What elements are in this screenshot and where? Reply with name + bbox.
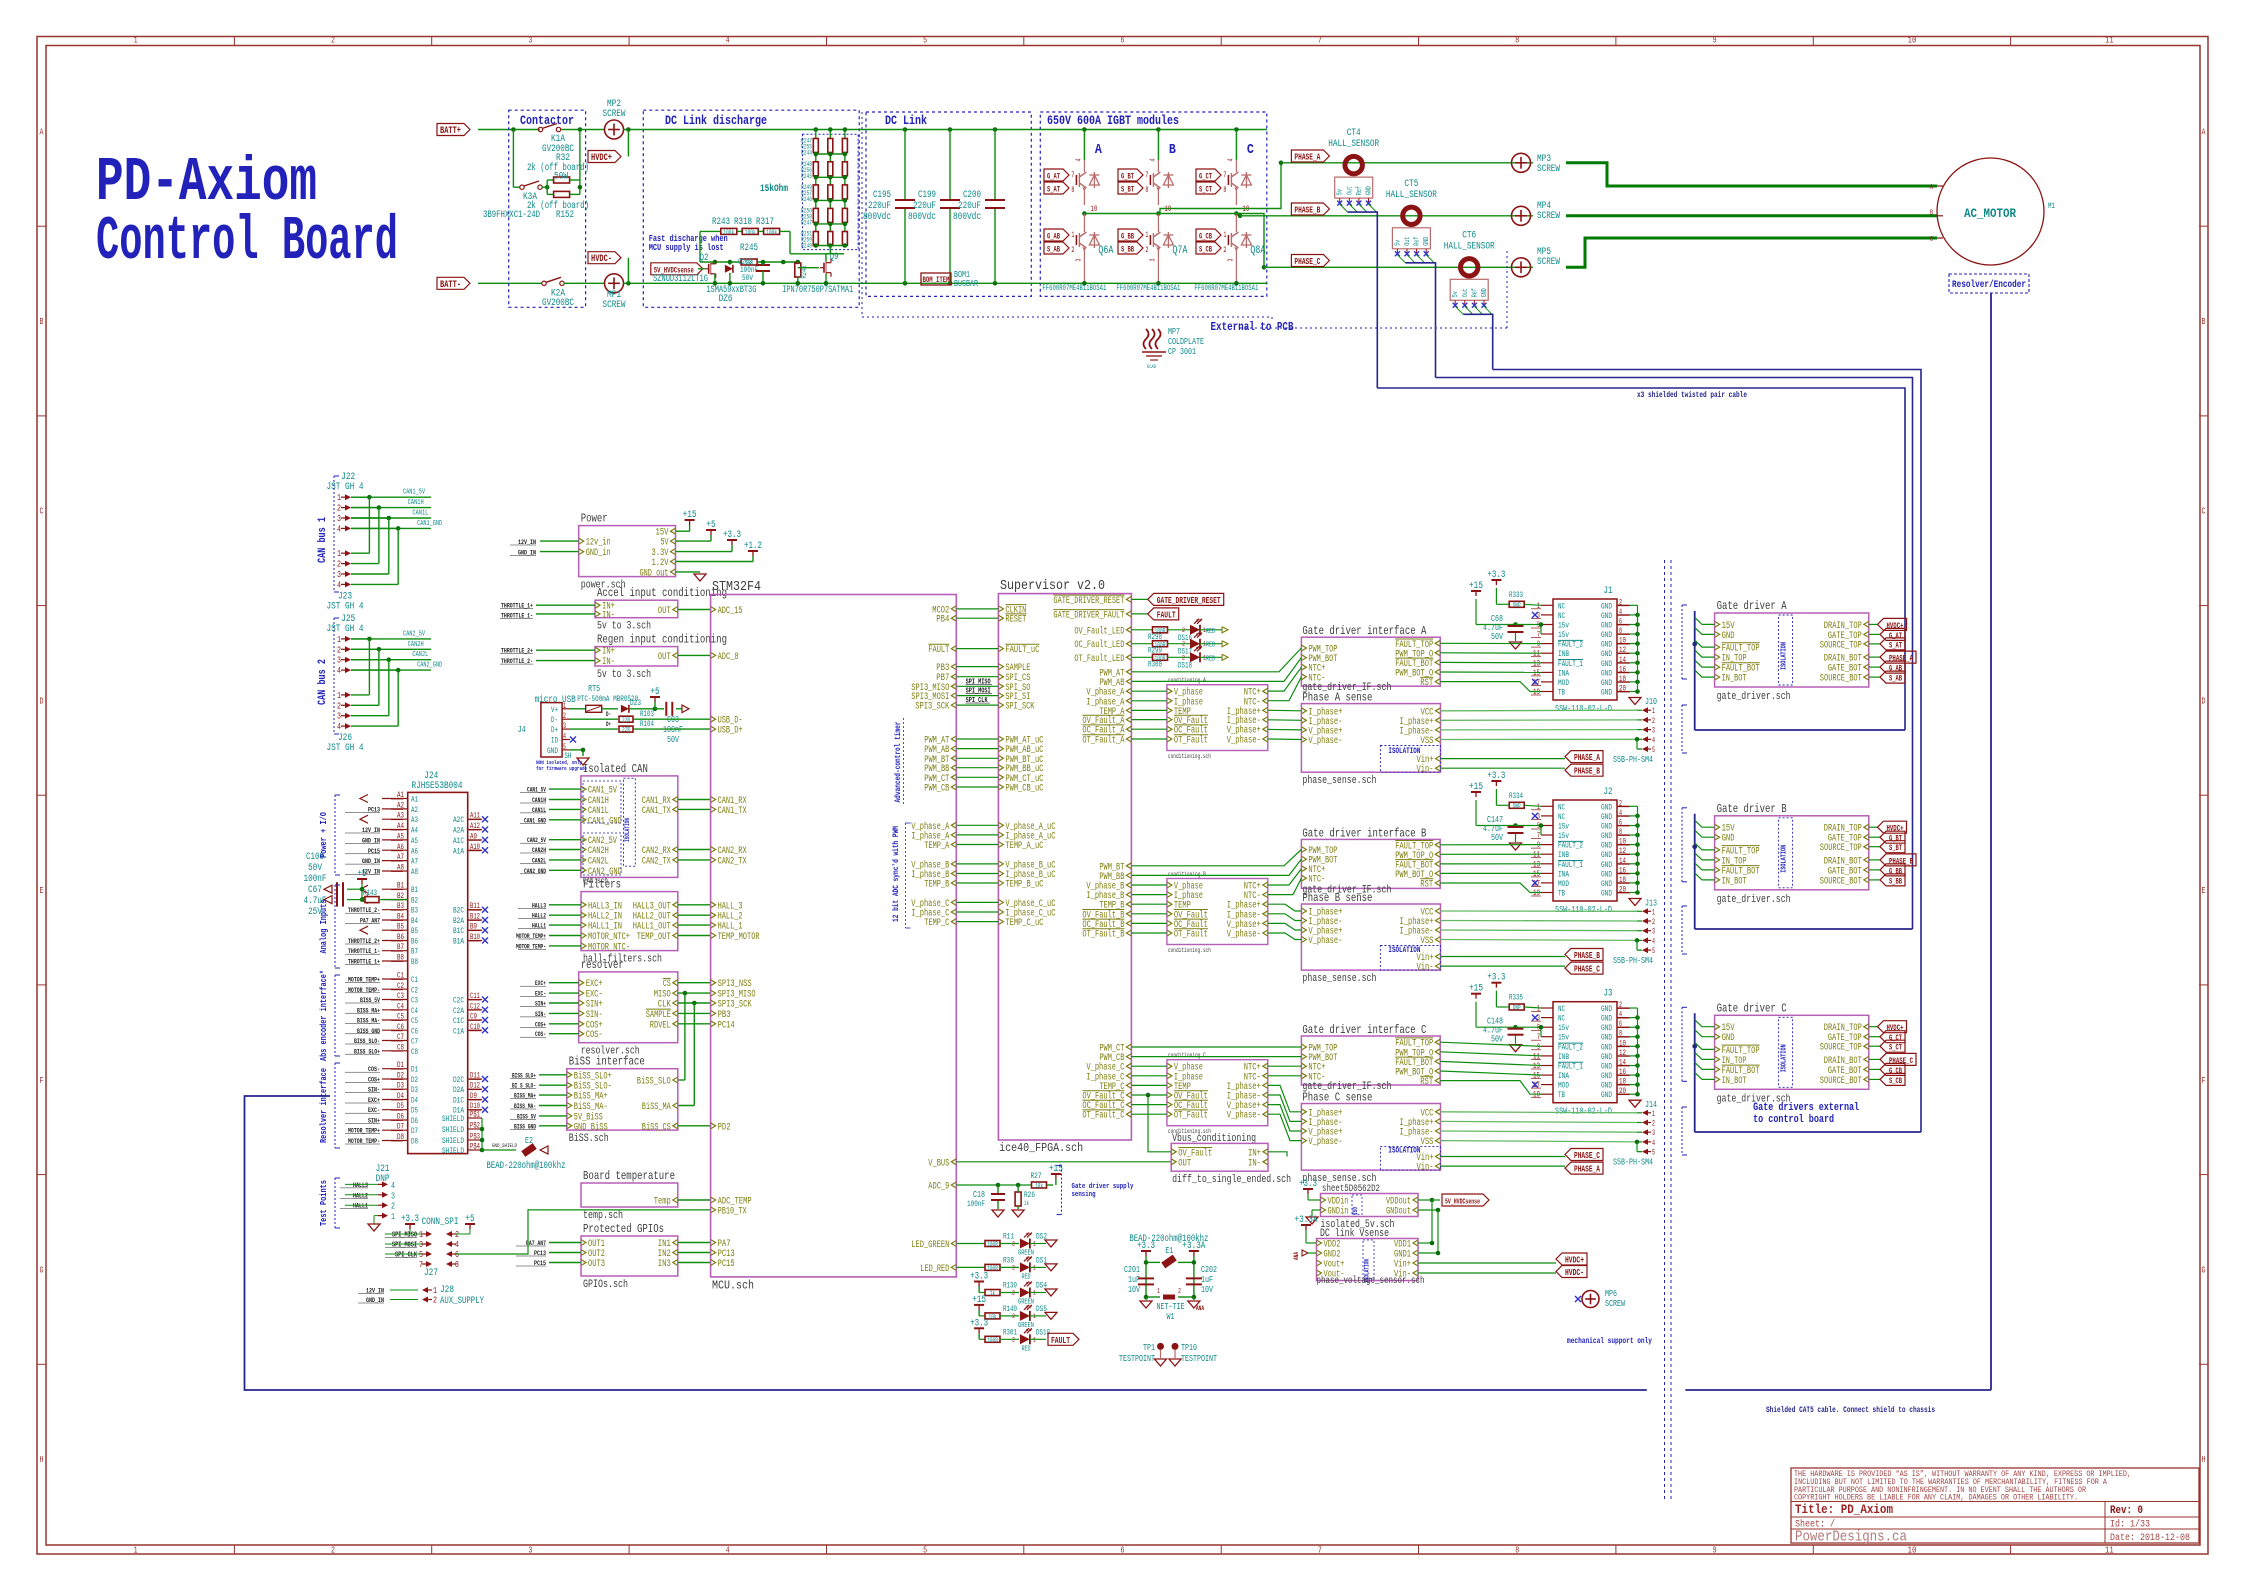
svg-text:GNDin: GNDin [1328,1206,1349,1218]
svg-text:G_BB: G_BB [1889,867,1902,876]
svg-text:CAN bus 1: CAN bus 1 [317,517,329,563]
svg-text:CP 3001: CP 3001 [1168,347,1196,357]
svg-text:RED: RED [1022,1345,1031,1353]
svg-text:FAULT_uC: FAULT_uC [1005,645,1039,656]
pin I_phase_B_uC of Supervisor [998,871,1003,877]
svg-text:GND: GND [1601,641,1612,650]
svg-text:GND: GND [1601,631,1612,640]
power flag +15 [689,520,691,525]
pin CAN1_TX of MCU [711,806,716,812]
svg-text:NC: NC [1558,803,1565,812]
svg-text:IN_BOT: IN_BOT [1722,674,1747,685]
svg-text:Q6A: Q6A [1098,245,1113,257]
svg-text:P$4: P$4 [470,1143,480,1152]
global label PHASE_C [1869,1058,1880,1060]
svg-text:SPI_SCK: SPI_SCK [1005,702,1034,713]
svg-text:9: 9 [1713,36,1717,46]
svg-text:FF600R07ME4B11BOSA1: FF600R07ME4B11BOSA1 [1194,284,1258,293]
svg-text:8: 8 [1515,36,1519,46]
pin PWM_AB_uC of Supervisor [998,746,1003,752]
svg-text:D-: D- [606,711,611,718]
svg-text:A2A: A2A [453,827,464,836]
svg-text:2: 2 [1071,246,1074,255]
pin 13 of J2 [1541,863,1553,865]
gate label S_CT [1196,182,1221,194]
svg-text:JST GH 4: JST GH 4 [327,743,364,754]
wires VDD1/GND1 [1418,1242,1432,1244]
svg-text:3: 3 [1652,928,1655,937]
wires gate driver IF C to J3 [1440,1042,1541,1046]
svg-text:GND: GND [1601,813,1612,822]
svg-text:BiSS_MA-: BiSS_MA- [574,1101,608,1113]
svg-text:9: 9 [1537,640,1540,649]
svg-text:TB: TB [1558,890,1565,899]
svg-text:GND_BiSS: GND_BiSS [574,1121,608,1133]
wire BiSS_CS to PD2 [678,1125,711,1127]
global label PHASE_A [1441,758,1566,760]
svg-text:GND: GND [1601,822,1612,831]
svg-text:GND: GND [1722,1033,1735,1044]
svg-text:GATE_DRIVER_RESET: GATE_DRIVER_RESET [1157,596,1221,606]
pin A4 of J24 [382,829,408,831]
svg-text:S_CB: S_CB [1199,246,1212,255]
svg-text:19: 19 [1533,688,1540,697]
pin B5 of J24 [382,929,408,931]
svg-text:GND: GND [1601,689,1612,698]
pin A5 of J24 [382,839,408,841]
pin D5 of J24 [382,1109,408,1111]
pin C7 of J24 [382,1040,408,1042]
pin OT_Fault_B of Supervisor [1126,930,1131,936]
wire motor phase A [1566,163,1937,186]
svg-text:R318: R318 [734,217,752,228]
svg-text:GND: GND [1601,880,1612,889]
pin 2 of J28 [422,1297,428,1303]
svg-text:GV200BC: GV200BC [542,298,574,309]
pin PB10_TX of MCU [711,1207,716,1213]
svg-text:Analog Inputs: Analog Inputs [319,900,329,954]
svg-text:10k: 10k [1035,1183,1043,1190]
wire +5 to J27 pin2 [469,1229,471,1234]
shield cable bottom A [1695,729,1905,731]
pin A3 of J24 [382,818,408,820]
svg-text:RST: RST [1420,1077,1433,1088]
svg-text:2: 2 [1652,918,1655,927]
svg-text:SCREW: SCREW [1537,257,1560,268]
global label HVDC+ [1869,623,1878,625]
pin I_phase_B of MCU [951,871,956,877]
shield cable CT5 [1405,263,1435,378]
svg-text:4: 4 [1227,159,1235,162]
svg-text:15kOhm: 15kOhm [760,183,788,195]
pin D6 of J24 [382,1119,408,1121]
svg-text:4: 4 [337,524,341,534]
pin 9 of J1 [1541,643,1553,645]
power flag +15 near J2 [1475,792,1477,797]
svg-text:RED: RED [1206,655,1215,663]
pin GATE_DRIVER_RESET of Supervisor [1126,596,1131,602]
svg-text:CAN bus 2: CAN bus 2 [317,659,329,705]
zener diode DZ6 [725,265,733,273]
svg-text:4: 4 [1075,159,1083,162]
svg-text:SAMPLE: SAMPLE [646,1010,671,1021]
pin TEMP_B of Supervisor [1126,901,1131,907]
shield cable bottom C [1695,1131,1921,1133]
svg-text:R300: R300 [1148,660,1162,669]
svg-text:R26: R26 [1024,1191,1035,1200]
sheet conditioning A [1167,685,1268,751]
transistor Q2 [705,268,709,270]
svg-text:50V: 50V [742,274,753,283]
svg-text:A2: A2 [411,806,418,815]
svg-text:conditioning B: conditioning B [1168,871,1206,878]
wire resolver out [678,992,711,994]
pin 5 of J2 [1541,825,1553,827]
wire GATE_DRIVER_FAULT [1131,613,1147,615]
pin V_phase_B_uC of Supervisor [998,861,1003,867]
svg-text:2: 2 [1012,1264,1015,1271]
svg-text:Out: Out [1346,186,1354,195]
wire GND bus of J2 [1637,806,1639,892]
svg-text:MP6: MP6 [1605,1289,1617,1299]
wires IN+/IN- to phase sense [1268,1152,1287,1157]
svg-text:GND: GND [1601,650,1612,659]
svg-text:5: 5 [923,1546,927,1556]
pin PB4 of MCU [951,615,956,621]
svg-text:VSS: VSS [1421,936,1434,947]
svg-text:OUT: OUT [658,652,671,663]
pin ADC_TEMP of MCU [711,1197,716,1203]
svg-text:Board temperature: Board temperature [583,1169,675,1183]
pin C4 of J24 [382,1009,408,1011]
pin I_phase_B of Supervisor [1126,892,1131,898]
svg-text:NC: NC [1558,813,1565,822]
svg-text:CAN1_TX: CAN1_TX [642,806,671,817]
ground [1629,698,1641,705]
power flag +3.3 near J1 [1495,580,1497,585]
global label PHASE_C [1441,1156,1566,1158]
svg-text:BATT-: BATT- [440,280,461,291]
pin PWM_AT of Supervisor [1126,669,1131,675]
svg-text:C200: C200 [963,190,981,201]
pin D1 of J24 [382,1068,408,1070]
power flag +3.3A [1305,1225,1307,1230]
pin PB3 of MCU [951,664,956,670]
pin LED_GREEN of MCU [951,1241,956,1247]
capacitor C147 [1475,800,1477,826]
pin 3 of J21 [382,1192,388,1198]
pin PB3 of MCU [711,1010,716,1016]
svg-text:C: C [40,507,44,517]
svg-text:B2: B2 [411,896,418,905]
svg-text:6: 6 [455,1250,459,1260]
svg-text:C2: C2 [411,986,418,995]
svg-text:SPI_MOSI: SPI_MOSI [966,688,991,696]
svg-text:SSW-110-02-L-D: SSW-110-02-L-D [1555,905,1612,915]
svg-text:19: 19 [1533,1091,1540,1100]
svg-text:10: 10 [1090,205,1097,214]
IGBT half-bridge C (Q8A) [1234,127,1239,132]
pin I_phase_C_uC of Supervisor [998,909,1003,915]
svg-text:A2C: A2C [453,816,464,825]
svg-text:1: 1 [1071,231,1074,240]
svg-text:A: A [2202,127,2206,137]
global label 5V_HVDCsense [1432,1199,1440,1201]
svg-text:A1: A1 [411,796,418,805]
svg-text:B3: B3 [411,907,418,916]
pin SPI_SI of Supervisor [998,693,1003,699]
svg-text:ISOLATION: ISOLATION [1781,642,1789,670]
svg-text:GND: GND [1481,288,1489,297]
wire CAN2_TX [678,859,711,861]
svg-text:MOTOR_NTC-: MOTOR_NTC- [588,942,630,953]
svg-text:7: 7 [1145,171,1148,180]
capacitor C201 [1138,1277,1154,1279]
svg-text:Gate driver A: Gate driver A [1717,599,1788,613]
svg-text:F: F [2202,1076,2206,1086]
power flag +15 near J3 [1475,994,1477,999]
svg-text:100R: 100R [987,1265,998,1272]
svg-text:10: 10 [1907,36,1916,46]
svg-text:B4: B4 [411,917,418,926]
svg-text:PHASE_A: PHASE_A [1574,753,1600,763]
relay switch K2A [542,281,546,285]
svg-text:VSS: VSS [1421,736,1434,747]
global label 5V_HVDCsense [651,263,703,275]
svg-text:D: D [40,696,44,706]
svg-text:GND: GND [1601,1062,1612,1071]
shield cable resolver [1990,293,1992,1390]
svg-text:temp.sch: temp.sch [583,1210,623,1222]
svg-text:+3.3: +3.3 [970,1318,988,1329]
svg-text:C199: C199 [918,190,936,201]
wire GPIO [678,1262,711,1264]
svg-text:8: 8 [1145,186,1148,195]
pin C1 of J24 [382,978,408,980]
wire [351,694,369,696]
global label PHASE_B [1238,214,1243,219]
svg-text:5v: 5v [1394,240,1402,246]
pin 13 of J3 [1541,1065,1553,1067]
svg-text:RST: RST [1420,880,1433,891]
svg-text:1: 1 [1157,1288,1160,1296]
svg-text:PHASE_B: PHASE_B [1889,857,1913,866]
svg-text:2: 2 [1012,1241,1015,1248]
svg-text:S5B-PH-SM4: S5B-PH-SM4 [1613,1158,1653,1168]
svg-text:5: 5 [1652,1149,1655,1158]
node 10 phase C [1234,211,1239,216]
svg-text:C2C: C2C [453,997,464,1006]
wire motor phase B [1566,214,1937,217]
pin CAN1_RX of MCU [711,797,716,803]
svg-text:Out: Out [1462,288,1470,297]
pin D2 of J24 [382,1078,408,1080]
svg-text:ADC_15: ADC_15 [718,606,743,617]
pin PWM_BT of MCU [951,755,956,761]
pin 11 of J3 [1541,1055,1553,1057]
svg-text:Filters: Filters [583,878,621,892]
svg-text:TEMP_MOTOR: TEMP_MOTOR [718,932,760,943]
svg-text:CAN1_GND: CAN1_GND [417,520,442,528]
gate label G_AT [1044,169,1069,181]
svg-text:PHASE_C: PHASE_C [1889,1057,1913,1066]
wire 15v pins [1516,825,1534,827]
shield cable to gate drivers [1685,1389,1991,1391]
svg-text:4: 4 [1149,159,1157,162]
svg-text:PC15: PC15 [718,1259,735,1270]
pin A6 of J24 [382,849,408,851]
svg-text:HALL_3: HALL_3 [718,901,743,912]
pin PWM_BT_uC of Supervisor [998,755,1003,761]
pin A7 of J24 [382,860,408,862]
svg-text:GND: GND [1366,186,1374,195]
wire BATT- to contactor [478,282,542,284]
svg-text:V_phase-: V_phase- [1227,735,1261,747]
svg-text:2: 2 [1012,1290,1015,1297]
pin OC_Fault_A of Supervisor [1126,726,1131,732]
wire [351,583,398,585]
svg-text:GND: GND [1601,679,1612,688]
svg-text:5: 5 [419,1250,423,1260]
sheet conditioning C [1167,1060,1268,1126]
svg-text:8: 8 [455,1260,459,1270]
pin C3 of J24 [382,999,408,1001]
svg-text:C202: C202 [1201,1265,1217,1275]
svg-text:22R: 22R [622,727,630,734]
svg-text:Gate driver B: Gate driver B [1717,802,1787,816]
pin CAN2_TX of MCU [711,857,716,863]
wire phase C output [1236,214,1264,268]
svg-text:M1: M1 [2048,202,2055,211]
svg-text:15: 15 [1533,1072,1540,1081]
wire BATT+ through discharge [643,129,866,131]
svg-text:11: 11 [1533,851,1540,860]
wire resolver MISO to BiSS_SLO [683,991,688,996]
pin PWM_AT_uC of Supervisor [998,736,1003,742]
pin PWM_CT_uC of Supervisor [998,774,1003,780]
svg-text:HVDC-: HVDC- [1565,1268,1584,1278]
wire filter out [678,924,711,926]
capacitor C68 [1475,599,1477,625]
global label GATE_DRIVER_RESET [1148,593,1224,605]
LED DS2 [1020,1239,1030,1249]
svg-text:5: 5 [1652,746,1655,755]
svg-text:22R: 22R [622,717,630,724]
svg-text:S_AB: S_AB [1047,246,1060,255]
svg-text:3: 3 [1652,727,1655,736]
pin I_phase_C of Supervisor [1126,1073,1131,1079]
svg-text:SCREW: SCREW [1537,164,1560,175]
svg-text:G_CT: G_CT [1199,173,1212,182]
svg-text:DNP: DNP [1513,803,1521,810]
pin MCO2 of MCU [951,606,956,612]
svg-text:RED: RED [1206,628,1215,636]
svg-text:4: 4 [455,1240,459,1250]
pin 15 of J2 [1541,872,1553,874]
pin FAULT_uC of Supervisor [998,646,1003,652]
pin I_phase_C of MCU [951,909,956,915]
svg-text:PHASE_C: PHASE_C [1294,257,1320,267]
svg-text:+3.3: +3.3 [401,1214,419,1225]
svg-text:4: 4 [726,1546,730,1556]
sheet conditioning B [1167,879,1268,945]
LED DS18 [1190,652,1200,662]
svg-text:Vin-: Vin- [1417,764,1434,776]
LED DS19 [1020,1334,1030,1344]
svg-text:NC: NC [1558,612,1565,621]
svg-text:SIN-: SIN- [586,1010,603,1021]
svg-text:Vin-: Vin- [1417,1162,1434,1174]
svg-text:15v: 15v [1558,822,1569,831]
svg-text:1: 1 [1537,1005,1540,1014]
svg-text:R143: R143 [363,889,377,898]
pins 7/8 of J27 [426,1261,432,1267]
pin PWM_CB_uC of Supervisor [998,784,1003,790]
svg-text:GND: GND [1601,870,1612,879]
svg-text:C: C [2202,507,2206,517]
pin 11 of J1 [1541,652,1553,654]
svg-text:R103: R103 [640,710,654,719]
svg-text:D2C: D2C [453,1076,464,1085]
svg-text:for firmware upgrade: for firmware upgrade [536,765,588,772]
svg-text:2: 2 [563,712,566,721]
svg-text:V_phase-: V_phase- [1308,1136,1342,1148]
svg-text:R152: R152 [556,210,574,221]
svg-text:C8: C8 [411,1048,418,1057]
separator dashed lines [1664,560,1666,1500]
wire [351,715,389,717]
svg-text:J3: J3 [1604,989,1613,1000]
pin 9 of J3 [1541,1045,1553,1047]
svg-text:100nF: 100nF [967,1200,985,1209]
svg-text:JST GH 4: JST GH 4 [327,482,364,493]
svg-text:SOURCE_BOT: SOURCE_BOT [1820,876,1862,887]
IGBT half-bridge A (Q6A) [1082,127,1087,132]
screw MP2 [605,120,624,139]
sheet MCU STM32F4 [711,595,957,1277]
svg-text:S_BT: S_BT [1889,844,1902,853]
svg-text:SHIELD: SHIELD [442,1137,464,1146]
svg-text:x3 shielded twisted pair cable: x3 shielded twisted pair cable [1637,391,1747,400]
shield bus gate driver A [1694,611,1696,730]
svg-text:ISO: ISO [1352,1207,1359,1215]
power flag +3.3 near J3 [1495,983,1497,988]
power flag +3.3 [1145,1251,1147,1256]
svg-text:B: B [1169,142,1176,158]
svg-text:G_BT: G_BT [1889,835,1902,844]
svg-text:BEAD-220ohm@100khz: BEAD-220ohm@100khz [487,1160,566,1172]
svg-text:R334: R334 [1509,792,1523,801]
pin TEMP_B of MCU [951,880,956,886]
svg-text:10: 10 [1907,1546,1916,1556]
svg-text:15v: 15v [1558,621,1569,630]
global label PHASE_A [1869,656,1880,658]
wire [351,725,398,727]
pin A8 of J24 [382,870,408,872]
pin 5 of J3 [1541,1026,1553,1028]
svg-text:1: 1 [391,1212,395,1222]
pin 3 of J2 [1541,815,1553,817]
svg-text:GND: GND [1601,842,1612,851]
svg-text:HALL3_OUT: HALL3_OUT [633,901,671,912]
svg-text:2: 2 [1145,246,1148,255]
wire PB10_TX [456,1210,711,1254]
svg-text:NET-TIE: NET-TIE [1157,1302,1185,1312]
svg-text:13: 13 [1533,860,1540,869]
wires phase C sense to J14 [1441,1112,1638,1113]
svg-text:OT_Fault: OT_Fault [1174,1110,1208,1122]
svg-text:IN-: IN- [602,657,615,668]
